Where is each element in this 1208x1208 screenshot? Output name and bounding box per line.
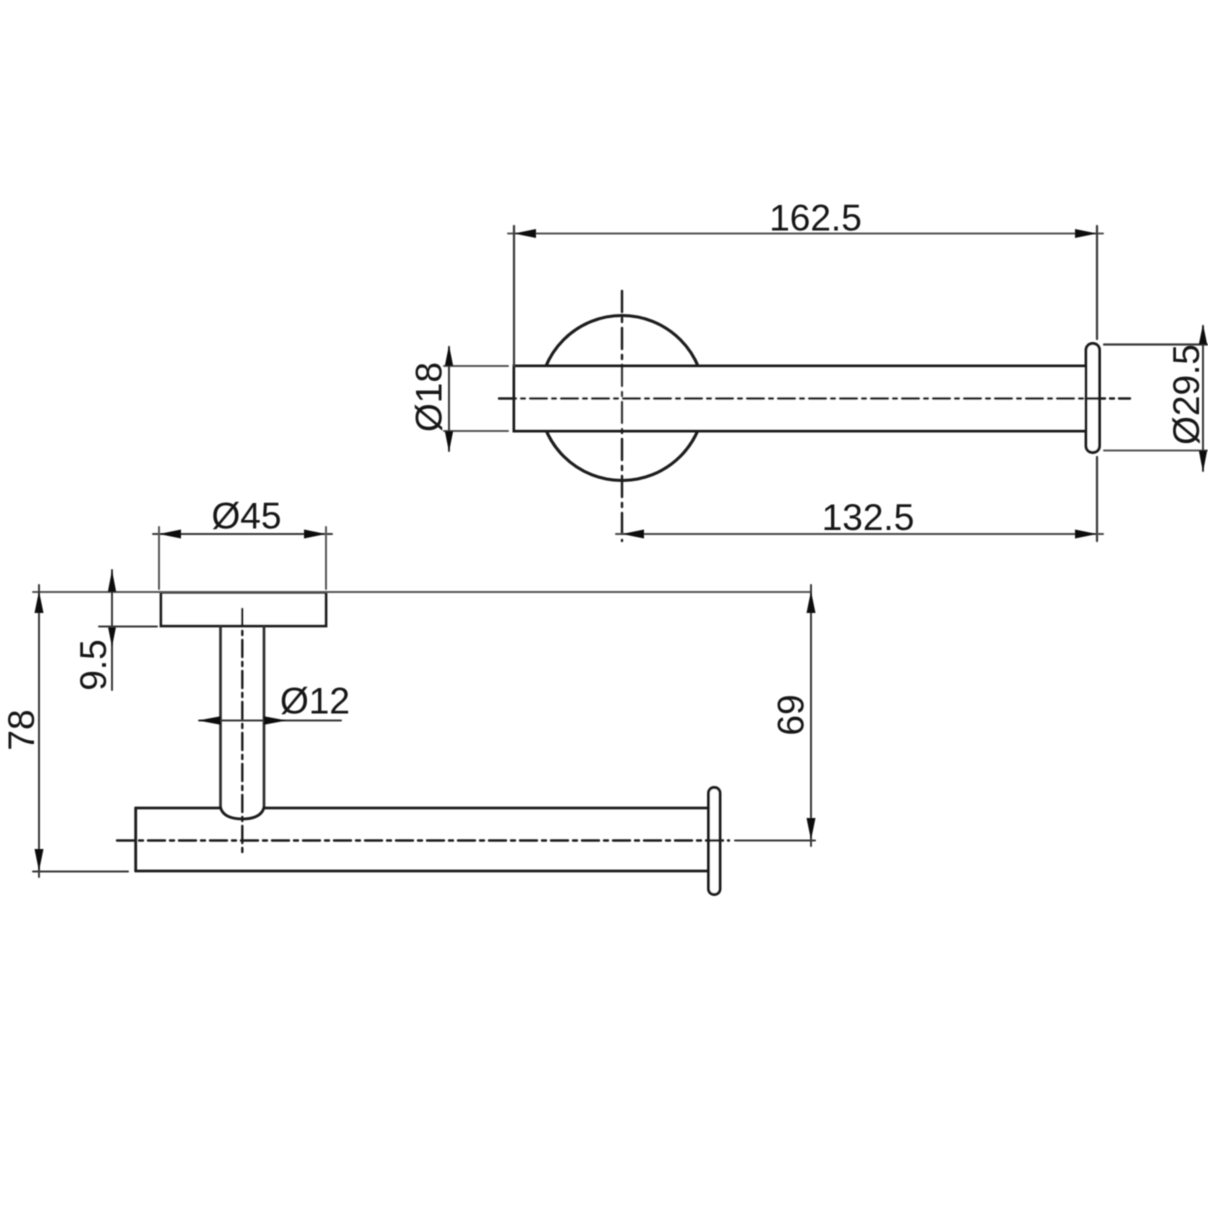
mounting flange circle O45 (behind bar) [540, 316, 705, 481]
9.5 lower extension line [99, 626, 157, 628]
wall plate edge (top view right) [1086, 344, 1100, 453]
svg-text:78: 78 [1, 709, 42, 750]
post/stem left edge [219, 626, 222, 808]
svg-text:Ø45: Ø45 [212, 496, 282, 537]
69 top arrow [807, 591, 816, 613]
O18 lower arrow (outside, tip down) [445, 431, 453, 452]
bar tube outline (top view) [514, 366, 1087, 431]
69 bottom extension line [735, 840, 815, 842]
O18 upper arrow (outside, tip up) [445, 345, 453, 366]
stem vertical centerline [241, 609, 243, 856]
dimension O45 line [153, 533, 332, 535]
O45 right arrow [304, 530, 326, 539]
O29.5 lower arrow (outside, tip down) [1199, 451, 1207, 473]
O12 right arrow (outside, tip right) [264, 716, 287, 724]
78 bottom extension line [33, 871, 128, 873]
dimension 78 line [38, 585, 40, 877]
9.5 upper arrow (outside, tip up) [108, 570, 116, 592]
dimension O12 line [199, 720, 341, 722]
svg-text:Ø29.5: Ø29.5 [1166, 344, 1207, 445]
svg-text:162.5: 162.5 [769, 198, 862, 239]
vertical centerline of circle [621, 291, 623, 541]
dimension 9.5 line [111, 570, 113, 690]
78 bottom arrow [35, 849, 44, 871]
78 top arrow [35, 591, 44, 613]
extension line left (bar end) [513, 226, 515, 366]
O29.5 bottom extension line [1104, 450, 1207, 452]
dimension 162.5 left arrow [514, 229, 536, 238]
dimension 132.5 left arrow [622, 530, 644, 539]
9.5 lower arrow (outside, tip down) [108, 626, 116, 647]
post/stem right edge [263, 626, 266, 808]
horizontal centerline of bar (top view) [499, 397, 1130, 399]
69 bottom arrow [807, 818, 816, 840]
end flange (side view) [709, 788, 721, 895]
O45 left arrow [159, 530, 181, 539]
post rounded end [221, 808, 265, 820]
svg-text:69: 69 [771, 694, 812, 735]
dimension 132.5 right arrow [1075, 530, 1097, 539]
dimension 162.5 right arrow [1075, 229, 1097, 238]
O29.5 dimension line [1202, 326, 1204, 471]
bar tube top edge right part [264, 807, 709, 810]
O18 bottom extension line [444, 430, 508, 432]
dimension 162.5 line [508, 233, 1103, 235]
bar tube (side view) top edge left part [136, 807, 221, 810]
svg-text:132.5: 132.5 [822, 497, 915, 538]
dimension 69 line [810, 585, 812, 846]
extension line right upper [1096, 226, 1098, 339]
long extension line at plate-top level [33, 591, 811, 593]
bar horizontal centerline (side view) [117, 839, 729, 841]
wall plate (side view) [161, 593, 326, 627]
svg-text:Ø18: Ø18 [409, 362, 450, 432]
extension line right lower [1096, 457, 1098, 541]
O45 right extension line [325, 527, 327, 589]
O29.5 upper arrow (outside, tip up) [1199, 324, 1207, 345]
O29.5 top extension line [1104, 343, 1207, 345]
svg-text:Ø12: Ø12 [280, 681, 350, 722]
dimension 132.5 line [616, 533, 1103, 535]
O18 dimension line [448, 347, 450, 451]
O12 left arrow (outside, tip left) [198, 716, 221, 724]
bar tube bottom edge [136, 870, 709, 873]
O45 left extension line [158, 527, 160, 589]
O18 top extension line [444, 365, 508, 367]
bar tube left end [134, 808, 137, 871]
svg-text:9.5: 9.5 [73, 639, 114, 690]
